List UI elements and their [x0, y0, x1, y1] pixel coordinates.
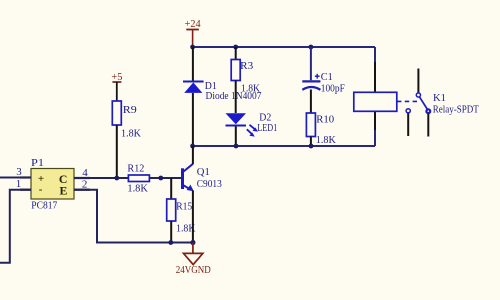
svg-text:PC817: PC817: [31, 199, 57, 211]
wire Q1 collector lead: [192, 146, 194, 164]
wire ground row: [171, 242, 193, 244]
svg-text:P1: P1: [31, 157, 44, 169]
pin relay coil bottom: [374, 111, 376, 130]
node R15/ground row junction: [168, 240, 173, 245]
node A/D2 junction: [234, 144, 239, 149]
svg-text:K1: K1: [433, 92, 446, 104]
svg-text:1: 1: [16, 178, 22, 190]
wire pin3: [0, 177, 31, 179]
relay K1 coil: [354, 92, 417, 111]
resistor R10: [306, 113, 315, 146]
capacitor C1: [302, 47, 320, 113]
svg-text:1.8K: 1.8K: [127, 182, 148, 194]
power +24: [185, 18, 201, 46]
resistor R15: [167, 178, 176, 243]
power +5: [111, 71, 122, 101]
optocoupler P1: [31, 169, 74, 200]
wire Q1 emitter lead: [192, 191, 194, 243]
svg-text:R9: R9: [123, 104, 138, 116]
transistor Q1: [181, 164, 194, 191]
resistor R3: [231, 47, 240, 113]
svg-text:-: -: [39, 184, 43, 196]
pin 2 stub: [74, 189, 90, 191]
node base wire junction: [158, 176, 163, 181]
LED D2: [226, 113, 259, 146]
node bus/R3 junction: [233, 45, 238, 50]
wire pin2: [74, 190, 171, 243]
pin relay coil top: [374, 62, 376, 92]
svg-text:R12: R12: [127, 162, 144, 174]
svg-text:24VGND: 24VGND: [176, 264, 211, 276]
node A/R10 junction: [309, 144, 314, 149]
svg-text:1.8K: 1.8K: [316, 134, 336, 146]
svg-text:2: 2: [82, 178, 88, 190]
node emitter/ground junction: [190, 240, 195, 245]
svg-text:E: E: [59, 184, 67, 198]
svg-text:R3: R3: [240, 60, 253, 72]
wire pin1: [0, 190, 31, 263]
node bus/D1 junction: [190, 45, 195, 50]
relay K1 switch: [406, 69, 430, 137]
svg-text:1.8K: 1.8K: [121, 128, 141, 140]
svg-text:3: 3: [16, 166, 22, 178]
wire pin4 to R12: [74, 177, 128, 179]
wire +24 bus: [193, 46, 375, 48]
diode D1: [183, 47, 204, 146]
node bus/C1 junction: [309, 45, 314, 50]
pin 1 stub: [20, 189, 31, 191]
svg-text:R10: R10: [316, 114, 334, 126]
svg-text:1.8K: 1.8K: [241, 83, 260, 95]
wire coil bottom to node A row: [374, 130, 376, 146]
wire node A row (D1/D2/R10/coil bottom): [193, 145, 375, 147]
node A/D1 junction: [190, 144, 195, 149]
svg-text:100pF: 100pF: [321, 82, 345, 94]
svg-text:C1: C1: [321, 71, 333, 83]
svg-text:Q1: Q1: [197, 166, 210, 178]
wire bus to relay coil: [374, 47, 376, 62]
svg-text:C9013: C9013: [197, 178, 222, 190]
node R9/pin4 junction: [114, 176, 119, 181]
svg-text:+24: +24: [185, 18, 201, 30]
svg-text:Relay-SPDT: Relay-SPDT: [433, 103, 479, 115]
ground 24VGND: [184, 243, 203, 265]
pin 4 stub: [74, 177, 90, 179]
pin 3 stub: [20, 176, 31, 178]
svg-text:LED1: LED1: [257, 122, 277, 134]
resistor R12: [128, 175, 182, 182]
resistor R9: [112, 101, 121, 178]
svg-text:R15: R15: [176, 201, 192, 213]
